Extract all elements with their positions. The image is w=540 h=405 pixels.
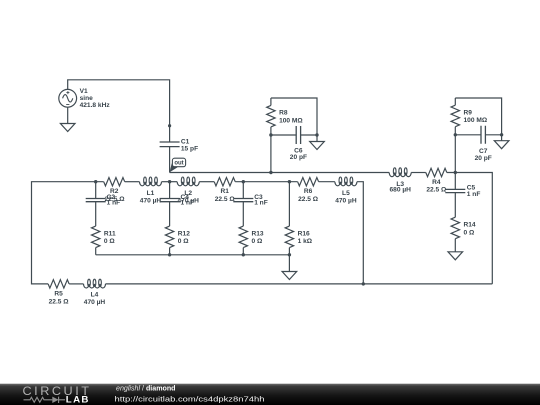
svg-text:R6: R6 — [304, 188, 313, 195]
svg-text:R16: R16 — [298, 230, 310, 237]
svg-text:470 µH: 470 µH — [84, 299, 106, 306]
svg-text:1 nF: 1 nF — [254, 200, 268, 207]
junction node R8 bottom — [269, 133, 272, 136]
resistor R8 100 MΩ — [267, 98, 304, 135]
wire R1 to R6 — [235, 181, 297, 183]
svg-text:100 MΩ: 100 MΩ — [279, 117, 303, 124]
svg-text:V1: V1 — [80, 88, 88, 95]
svg-text:http://circuitlab.com/cs4dpkz8: http://circuitlab.com/cs4dpkz8n74hh — [115, 394, 265, 403]
resistor R16 1 kΩ — [285, 182, 313, 255]
wire R8 top loop — [271, 98, 317, 135]
capacitor C4 1 nF — [160, 182, 194, 226]
resistor R4 22.5 Ω — [426, 168, 447, 193]
ground right of C6 — [310, 135, 325, 150]
svg-text:0 Ω: 0 Ω — [252, 238, 263, 245]
wire L2 to R1 — [199, 181, 214, 183]
svg-text:sine: sine — [80, 95, 94, 102]
junction node at C3 branch — [242, 180, 245, 183]
capacitor C3 1 nF — [233, 182, 267, 226]
svg-text:0 Ω: 0 Ω — [178, 238, 189, 245]
wire R9 top loop — [455, 98, 501, 135]
wire L1 to L2 — [162, 181, 178, 183]
svg-text:R1: R1 — [220, 188, 229, 195]
resistor R6 22.5 Ω — [298, 178, 319, 204]
node on C1 column — [168, 124, 171, 127]
junction node at L1-L2 (out column) — [168, 180, 171, 183]
svg-text:L1: L1 — [147, 190, 155, 197]
wire R8 branch to rail — [270, 135, 272, 173]
svg-text:R12: R12 — [178, 230, 190, 237]
svg-text:R13: R13 — [252, 230, 264, 237]
junction node C6 right — [315, 133, 318, 136]
wire R9 branch to rail — [454, 135, 456, 173]
svg-text:out: out — [174, 161, 183, 167]
capacitor C1 15 pF — [160, 139, 199, 153]
wire R6 to L5 — [319, 181, 335, 183]
svg-text:421.8 kHz: 421.8 kHz — [80, 102, 111, 109]
svg-text:englishl / diamond: englishl / diamond — [116, 386, 176, 393]
inductor L1 470 µH — [140, 177, 162, 205]
svg-text:0 Ω: 0 Ω — [464, 229, 475, 236]
svg-text:20 pF: 20 pF — [475, 155, 492, 162]
svg-text:22.5 Ω: 22.5 Ω — [298, 196, 319, 203]
junction node C7 right — [500, 133, 503, 136]
wire bottom rail R5 to L4 — [69, 283, 83, 285]
resistor R12 0 Ω — [165, 226, 190, 255]
wire bottom rail L4 to right corner — [106, 283, 493, 285]
wire upper rail R4 to right corner, down to bottom rail — [447, 173, 493, 284]
svg-text:L4: L4 — [91, 292, 99, 299]
wire L5 right end down to bottom rail — [357, 182, 363, 284]
resistor R2 22.5 Ω — [104, 178, 126, 204]
svg-text:R5: R5 — [54, 290, 63, 297]
junction node rail R8 branch — [269, 171, 272, 174]
inductor L5 470 µH — [335, 177, 357, 205]
junction node rail C5/R9 branch — [454, 171, 457, 174]
capacitor C5 1 nF — [445, 173, 480, 218]
svg-text:R4: R4 — [432, 179, 441, 186]
resistor R11 0 Ω — [92, 226, 116, 255]
svg-text:1 kΩ: 1 kΩ — [298, 238, 313, 245]
capacitor C6 20 pF — [271, 126, 317, 161]
svg-text:R11: R11 — [104, 230, 116, 237]
svg-text:470 µH: 470 µH — [140, 198, 162, 205]
svg-text:470 µH: 470 µH — [335, 198, 357, 205]
svg-text:1 nF: 1 nF — [107, 200, 121, 207]
ground below R16 — [282, 255, 297, 280]
ground below R14 — [448, 252, 463, 260]
junction node at R2 left — [94, 180, 97, 183]
svg-text:22.5 Ω: 22.5 Ω — [49, 298, 70, 305]
resistor R13 0 Ω — [239, 226, 264, 255]
svg-text:R9: R9 — [464, 109, 473, 116]
svg-text:R8: R8 — [279, 110, 288, 117]
voltage source V1 sine 421.8 kHz — [59, 88, 111, 124]
wire R2 to L1 — [125, 181, 140, 183]
inductor L2 470 µH — [177, 177, 199, 205]
svg-text:R14: R14 — [464, 222, 476, 229]
ground right of C7 — [494, 135, 509, 149]
resistor R9 100 MΩ — [451, 98, 488, 135]
wire upper rail L3 to R4 — [411, 172, 426, 174]
svg-text:22.5 Ω: 22.5 Ω — [215, 196, 236, 203]
resistor R14 0 Ω — [451, 217, 476, 252]
CircuitLab logo doodle (resistor + diode wire) — [24, 397, 66, 403]
svg-text:1 nF: 1 nF — [181, 200, 195, 207]
capacitor C7 20 pF — [455, 126, 501, 162]
footer bar — [0, 384, 540, 405]
capacitor C2 1 nF — [86, 182, 120, 226]
junction node middle rail R12 — [168, 253, 171, 256]
svg-text:LAB: LAB — [66, 394, 90, 404]
wire main row left segment with left drop — [32, 182, 104, 284]
resistor R1 22.5 Ω — [214, 178, 235, 204]
svg-text:15 pF: 15 pF — [181, 146, 198, 153]
wire middle rail R11 to R16 — [96, 254, 290, 256]
wire upper rail out to L3 — [170, 172, 390, 174]
wire C1 to node out — [169, 147, 171, 173]
inductor L3 680 µH — [389, 168, 411, 194]
junction node middle rail R13 — [242, 253, 245, 256]
node out (flag) — [170, 158, 186, 172]
svg-text:680 µH: 680 µH — [389, 187, 411, 194]
svg-text:L5: L5 — [342, 190, 350, 197]
svg-text:20 pF: 20 pF — [290, 154, 307, 161]
wire V1 top to C1 column — [68, 80, 170, 142]
svg-text:1 nF: 1 nF — [467, 191, 481, 198]
junction node bottom rail L5 drop — [362, 282, 365, 285]
junction node R16 bottom — [288, 253, 291, 256]
junction node R9 bottom — [454, 133, 457, 136]
svg-text:22.5 Ω: 22.5 Ω — [426, 187, 447, 194]
svg-text:0 Ω: 0 Ω — [104, 238, 115, 245]
resistor R5 22.5 Ω — [48, 280, 69, 306]
inductor L4 470 µH — [84, 279, 106, 306]
ground below V1 — [60, 124, 75, 132]
svg-text:100 MΩ: 100 MΩ — [464, 117, 488, 124]
junction node at R16 branch — [288, 180, 291, 183]
